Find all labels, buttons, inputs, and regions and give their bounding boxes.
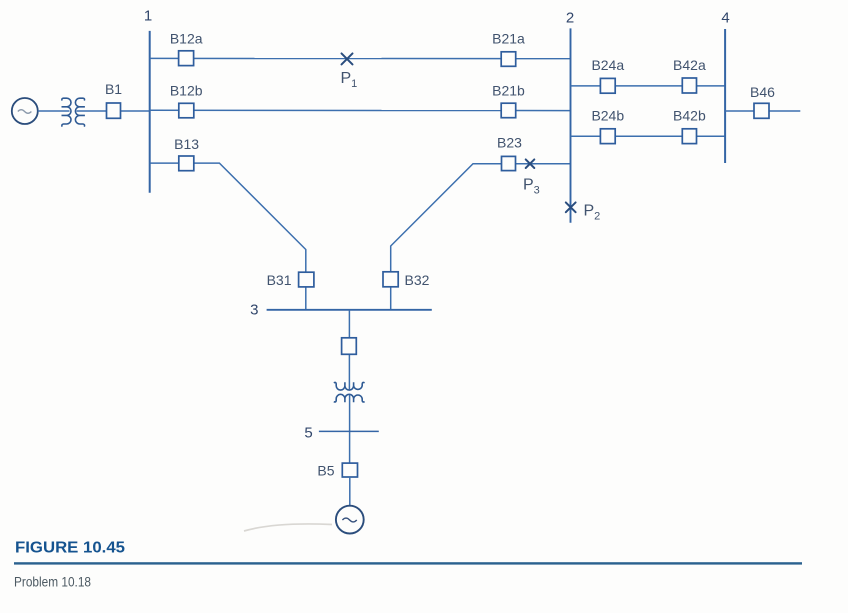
svg-text:B23: B23	[497, 134, 522, 150]
wire line 1-2 circuit b	[150, 109, 571, 111]
svg-text:3: 3	[250, 301, 258, 318]
bus 2	[570, 28, 572, 222]
breaker B31	[299, 272, 314, 287]
svg-text:2: 2	[566, 9, 574, 26]
caption rule	[14, 562, 802, 564]
svg-text:FIGURE 10.45: FIGURE 10.45	[15, 540, 125, 557]
scan smudge artifact	[244, 524, 332, 531]
svg-text:B12b: B12b	[170, 83, 203, 99]
svg-text:B13: B13	[174, 136, 199, 152]
generator G1	[12, 98, 38, 124]
breaker B42b	[682, 129, 696, 144]
breaker B12a	[179, 51, 194, 66]
svg-text:B21b: B21b	[492, 83, 525, 99]
wire line 2-4 circuit b	[571, 135, 726, 137]
svg-text:B1: B1	[105, 81, 122, 97]
generator G2	[336, 506, 364, 534]
breaker B24a	[600, 78, 615, 93]
wire line 1-3	[150, 163, 306, 310]
breaker B23	[502, 156, 516, 170]
svg-text:B31: B31	[267, 272, 292, 288]
breaker B21b	[501, 103, 516, 118]
wire breaker B1 to bus 1	[121, 110, 150, 112]
fault P1	[342, 53, 353, 64]
breaker B12b	[179, 103, 194, 118]
fault P3	[526, 159, 535, 168]
transformer T2	[334, 382, 365, 402]
wire breaker B5 to generator G2	[349, 477, 351, 506]
breaker B5	[342, 463, 357, 477]
wire line 2-3	[391, 164, 571, 310]
wire bus 3 to transformer T2	[348, 310, 350, 390]
breaker B3 (unlabeled)	[342, 338, 357, 355]
breaker B13	[179, 156, 194, 171]
wire generator G1 to transformer T1	[38, 110, 70, 112]
breaker B32	[383, 272, 398, 287]
svg-text:5: 5	[304, 425, 312, 442]
svg-text:B42b: B42b	[673, 107, 706, 123]
svg-text:Problem 10.18: Problem 10.18	[14, 574, 91, 590]
breaker B21a	[501, 52, 516, 67]
transformer T1	[62, 98, 85, 127]
svg-text:1: 1	[144, 8, 152, 25]
breaker B1	[107, 103, 121, 118]
svg-text:B32: B32	[405, 272, 430, 288]
svg-text:B12a: B12a	[170, 31, 203, 47]
svg-text:B24a: B24a	[591, 57, 624, 73]
bus 1	[149, 31, 151, 193]
wire transformer T2 to breaker B5	[349, 395, 351, 463]
svg-text:B42a: B42a	[673, 57, 706, 73]
breaker B42a	[682, 78, 696, 93]
fault P2	[566, 202, 576, 212]
wire line 2-4 circuit a	[571, 85, 726, 87]
breaker B24b	[600, 129, 615, 144]
wire bus 4 to B46	[725, 110, 800, 112]
breaker B46	[754, 103, 769, 118]
bus 3	[267, 309, 432, 311]
svg-text:B24b: B24b	[591, 107, 624, 123]
svg-text:B46: B46	[750, 84, 775, 100]
svg-text:4: 4	[721, 10, 729, 27]
bus 4	[724, 29, 726, 163]
bus 5	[319, 430, 379, 432]
svg-text:B5: B5	[317, 463, 334, 479]
wire transformer T1 to breaker B1	[77, 110, 107, 112]
svg-text:B21a: B21a	[492, 31, 525, 47]
wire line 1-2 circuit a	[150, 57, 571, 59]
